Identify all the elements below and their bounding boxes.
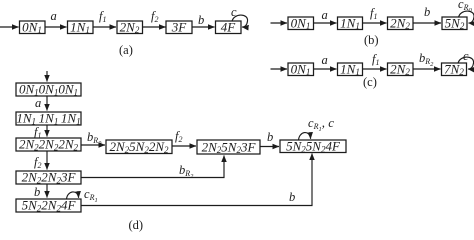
wire f2 (d) <box>34 151 47 170</box>
wire f1 (c) <box>363 52 387 69</box>
svg-text:2N22N23F: 2N22N23F <box>22 170 77 186</box>
svg-text:(d): (d) <box>129 218 144 232</box>
node 4F (a) <box>216 19 242 34</box>
wire a (a) <box>45 9 67 27</box>
svg-text:4F: 4F <box>221 19 237 34</box>
svg-text:b: b <box>289 190 295 204</box>
wire f1 (d) <box>34 125 47 140</box>
wire a (b) <box>314 8 337 23</box>
node 2N25N22N2 <box>106 139 172 155</box>
node 2N25N23F <box>197 139 260 155</box>
svg-text:a: a <box>35 96 41 110</box>
svg-text:5N22N24F: 5N22N24F <box>22 198 77 214</box>
svg-text:(c): (c) <box>363 75 377 89</box>
wire bR0 (d) horizontal to 2N25N22N2 <box>81 130 105 147</box>
svg-text:0N10N10N1: 0N10N10N1 <box>19 82 78 98</box>
wire b from 5N22N24F right and up into 5N25N24F <box>81 154 312 206</box>
node 0N1 (a) <box>20 19 46 35</box>
wire self-loop cR1 on 5N22N24F <box>67 187 98 204</box>
svg-text:b: b <box>424 5 430 19</box>
node 3F (a) <box>166 19 192 34</box>
svg-text:b: b <box>198 13 204 27</box>
svg-text:2N25N22N2: 2N25N22N2 <box>109 139 169 155</box>
node 2N22N23F <box>16 170 81 186</box>
node 2N2 (b) <box>388 15 414 31</box>
svg-text:2N25N23F: 2N25N23F <box>202 139 257 155</box>
node 1N1 (b) <box>338 15 363 31</box>
node 0N10N10N1 <box>16 82 81 98</box>
node 5N22N24F <box>16 198 81 214</box>
svg-text:5N25N24F: 5N25N24F <box>286 138 341 154</box>
svg-text:c: c <box>231 5 237 19</box>
svg-text:b: b <box>267 130 273 144</box>
node 0N1 (c) <box>288 61 314 77</box>
wire bR2 (c) <box>413 51 441 69</box>
svg-text:2N22N22N2: 2N22N22N2 <box>19 137 79 153</box>
node 1N1 (a) <box>68 19 94 35</box>
wire a (c) <box>314 53 337 69</box>
node 7N2 (c) <box>442 61 467 77</box>
wire initial arrow (b) <box>271 22 288 24</box>
svg-text:c: c <box>463 49 469 63</box>
node 1N1 (c) <box>338 61 363 77</box>
svg-text:a: a <box>51 9 57 23</box>
wire initial arrow (a) <box>0 26 19 28</box>
wire initial arrow (d) <box>46 71 48 82</box>
wire b (b) <box>413 5 441 23</box>
svg-text:(a): (a) <box>119 43 133 57</box>
node 2N2 (a) <box>117 19 143 35</box>
wire f1 (a) <box>93 9 116 27</box>
wire f2 to 2N25N23F <box>172 129 196 146</box>
wire self-loop c on 4F <box>231 5 248 27</box>
wire self-loop cR0 on 5N2 (cut at edge) <box>458 0 474 23</box>
node 2N22N22N2 <box>16 137 81 153</box>
wire b (a) <box>192 13 215 27</box>
wire self-loop c on 7N2 (cut at edge) <box>458 49 474 69</box>
wire self-loop cR1,c on 5N25N24F <box>299 115 335 140</box>
svg-text:3F: 3F <box>171 19 188 34</box>
wire f2 (a) <box>143 9 166 27</box>
wire f1 (b) <box>363 6 387 23</box>
svg-text:1N1 1N1 1N1: 1N1 1N1 1N1 <box>16 111 80 127</box>
node 5N2 (b) <box>442 15 467 31</box>
node 1N11N11N1 <box>16 111 81 127</box>
wire b (d) down <box>34 184 47 199</box>
wire bR2 from 2N22N23F right and up into 2N25N23F <box>81 156 224 181</box>
svg-text:a: a <box>322 8 328 22</box>
svg-text:a: a <box>322 53 328 67</box>
node 2N2 (c) <box>388 61 414 77</box>
node 0N1 (b) <box>288 15 314 31</box>
wire b to 5N25N24F <box>260 130 279 147</box>
wire a (d) <box>35 96 47 111</box>
node 5N25N24F <box>280 138 346 154</box>
wire initial arrow (c) <box>271 68 288 70</box>
svg-text:(b): (b) <box>364 33 379 47</box>
